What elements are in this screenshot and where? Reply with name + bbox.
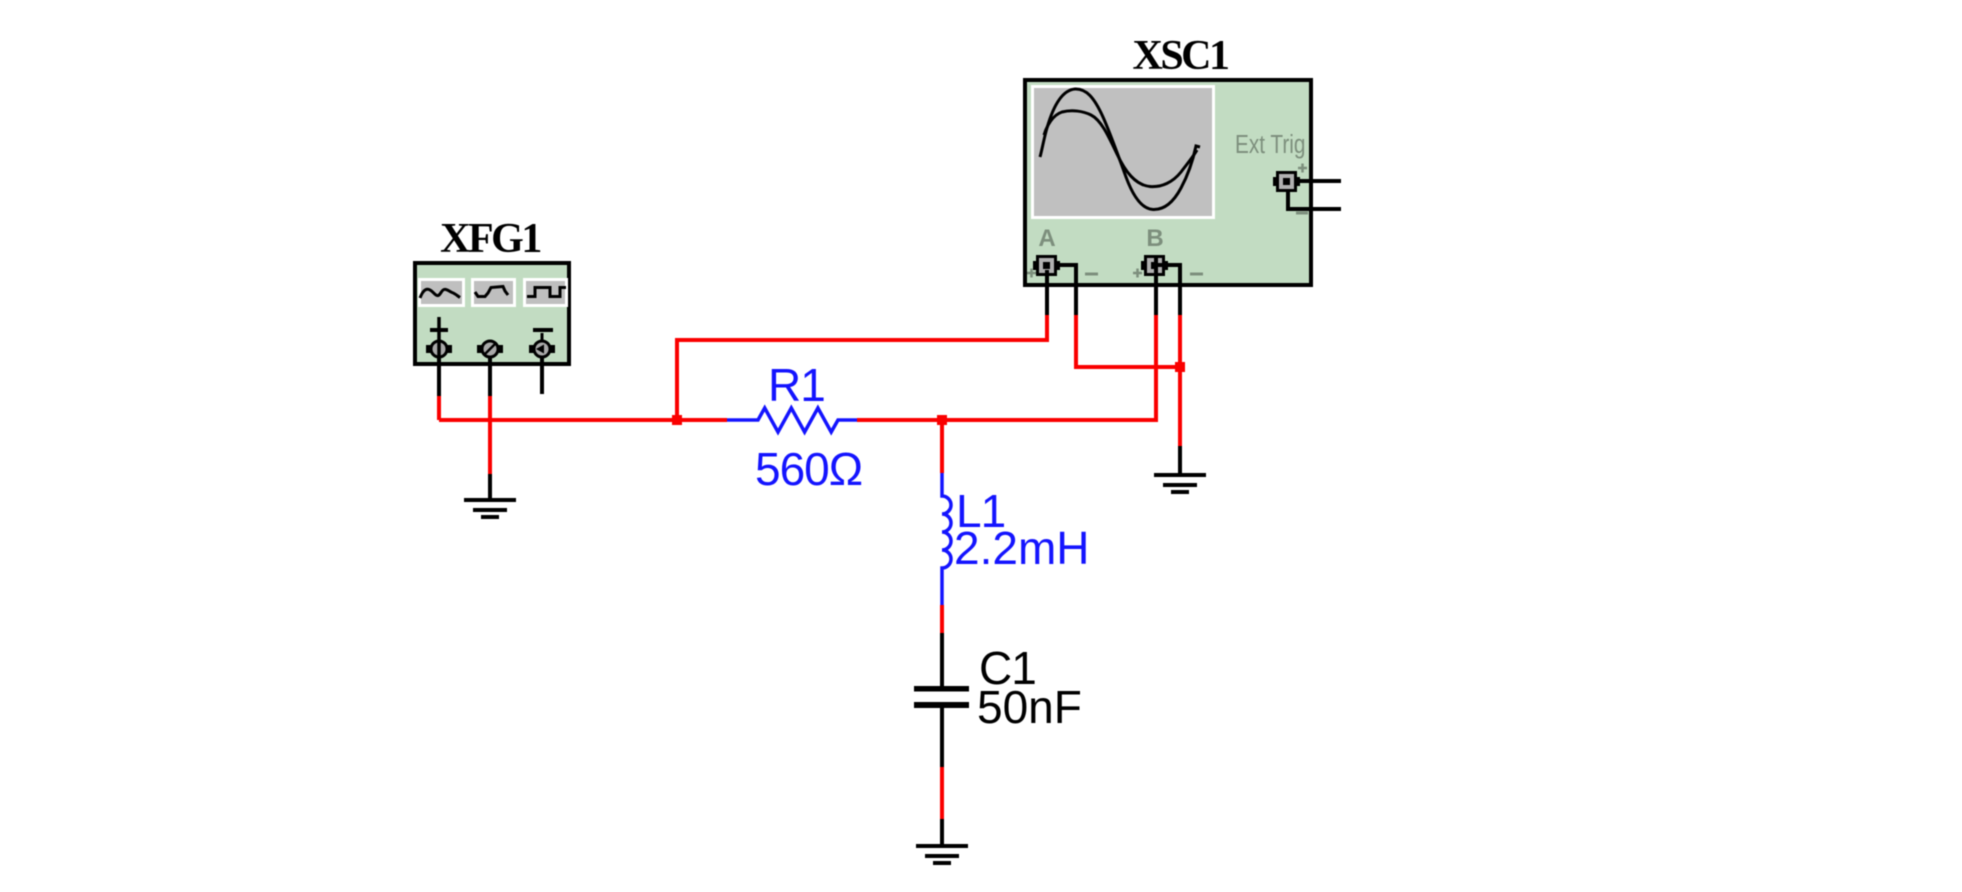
XFG1 minus pin label <box>533 330 553 341</box>
XFG1 sine wave button <box>418 278 465 307</box>
channel B terminal <box>1141 255 1168 276</box>
XSC1 screen trace channel A <box>1040 89 1200 210</box>
wire XFG1 + to main node (red) <box>437 396 441 420</box>
svg-text:Ext Trig: Ext Trig <box>1235 130 1305 159</box>
wire L1 to C1 (black lead) <box>940 633 944 686</box>
XFG1 triangle wave button <box>471 278 516 307</box>
XSC1 screen <box>1031 85 1215 219</box>
svg-text:R1: R1 <box>768 359 825 411</box>
wire scope A+ to node 1 (red) <box>677 315 1047 420</box>
channel A + mark <box>1027 269 1036 278</box>
XFG1 common terminal <box>477 341 503 357</box>
node junction A- / B- ground net <box>1175 362 1185 372</box>
svg-text:A: A <box>1038 225 1055 252</box>
capacitor C1 <box>914 686 969 708</box>
Ext Trig terminal <box>1273 171 1300 192</box>
wire C1 to ground (black lead) <box>940 708 944 767</box>
XFG1 plus pin label <box>430 317 448 341</box>
wire XFG1 common stub (black) <box>488 357 492 396</box>
svg-text:XSC1: XSC1 <box>1132 33 1228 79</box>
wire scope B+ stub (black) <box>1154 257 1158 315</box>
wire XFG1 + terminal stub (black) <box>437 357 441 396</box>
wire scope B- to ground (red) <box>1178 315 1182 446</box>
XFG1 label <box>440 216 540 262</box>
XSC1 label <box>1132 33 1228 79</box>
Ext Trig label <box>1235 130 1305 159</box>
channel B - mark <box>1190 273 1203 276</box>
svg-text:560Ω: 560Ω <box>755 443 862 495</box>
resistor R1 <box>727 408 857 432</box>
node junction R1/L1/B+ <box>937 415 947 425</box>
wire Ext Trig - (black) <box>1288 192 1341 209</box>
wire XFG1 to R1 (red) <box>439 418 727 422</box>
ground below C1 <box>916 846 968 863</box>
wire scope A+ stub (black) <box>1045 270 1049 315</box>
wire scope A- stub (black) <box>1056 265 1076 315</box>
channel B + mark <box>1133 269 1142 278</box>
Ext Trig - mark <box>1296 212 1308 215</box>
ground below scope <box>1154 475 1206 492</box>
wire XFG1 common ground lead (black) <box>488 474 492 500</box>
wire Ext Trig + (black) <box>1297 179 1341 183</box>
ground below XFG1 <box>464 500 516 517</box>
svg-text:50nF: 50nF <box>977 681 1082 733</box>
wire XFG1 common to ground (red) <box>488 396 492 474</box>
wire node 2 to L1 (red) <box>940 420 944 473</box>
Ext Trig + mark <box>1298 164 1307 173</box>
svg-text:2.2mH: 2.2mH <box>954 522 1089 574</box>
wire L1 to C1 (red) <box>940 605 944 633</box>
wire scope A- to ground net (red) <box>1076 315 1180 367</box>
channel A terminal <box>1033 255 1060 276</box>
wire C1 ground lead (black) <box>940 819 944 846</box>
function generator XFG1 body <box>415 263 569 364</box>
svg-text:B: B <box>1146 225 1163 252</box>
wire scope B+ to node 2 (red) <box>857 315 1156 420</box>
svg-text:XFG1: XFG1 <box>440 216 540 262</box>
XFG1 - terminal <box>529 341 555 357</box>
wire C1 to ground (red) <box>940 767 944 819</box>
XFG1 + terminal <box>426 341 452 357</box>
channel A - mark <box>1085 273 1098 276</box>
wire scope B- stub (black) <box>1156 265 1180 315</box>
wire scope B- ground lead (black) <box>1178 446 1182 475</box>
node junction at A+ tap <box>672 415 682 425</box>
wire R1 to scope B+ (red) <box>857 418 1156 422</box>
oscilloscope XSC1 body <box>1025 80 1311 285</box>
wire XFG1 - open stub (black) <box>540 357 544 394</box>
inductor L1 <box>942 473 951 605</box>
XFG1 square wave button <box>523 278 568 307</box>
XSC1 screen trace channel B <box>1044 111 1197 187</box>
